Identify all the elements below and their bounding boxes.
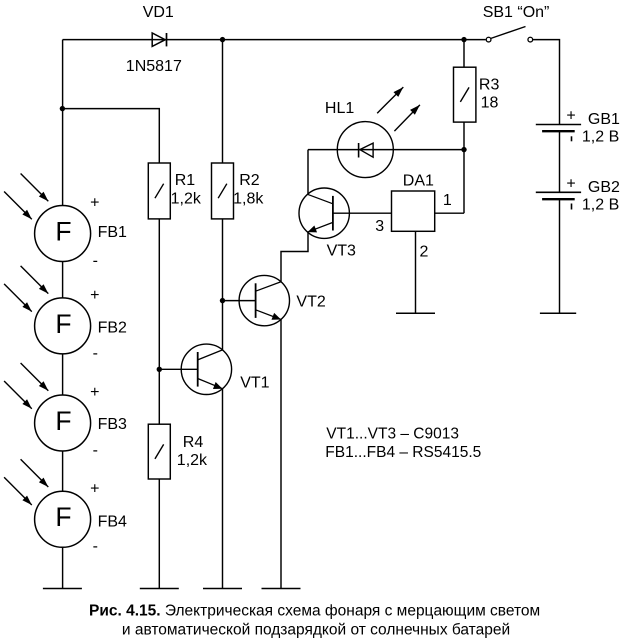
- svg-text:VT2: VT2: [296, 293, 325, 310]
- svg-text:+: +: [90, 384, 99, 401]
- svg-text:1,2 В: 1,2 В: [582, 129, 619, 146]
- svg-text:18: 18: [481, 95, 499, 112]
- svg-text:GB2: GB2: [588, 179, 620, 196]
- svg-text:HL1: HL1: [325, 100, 354, 117]
- svg-text:-: -: [93, 252, 98, 269]
- svg-text:3: 3: [375, 218, 384, 235]
- svg-text:-: -: [93, 538, 98, 555]
- svg-text:1,2 В: 1,2 В: [582, 197, 619, 214]
- svg-text:R2: R2: [239, 172, 260, 189]
- svg-text:1N5817: 1N5817: [126, 58, 182, 75]
- svg-text:1: 1: [443, 192, 452, 209]
- svg-text:FB3: FB3: [98, 416, 127, 433]
- svg-text:FB2: FB2: [98, 319, 127, 336]
- svg-text:F: F: [55, 502, 71, 532]
- svg-text:R1: R1: [175, 172, 196, 189]
- svg-text:FB4: FB4: [98, 513, 127, 530]
- svg-text:+: +: [90, 480, 99, 497]
- svg-text:F: F: [55, 216, 71, 246]
- svg-text:VT1: VT1: [240, 375, 269, 392]
- svg-text:1,2k: 1,2k: [177, 452, 208, 469]
- svg-text:+: +: [90, 195, 99, 212]
- svg-text:SB1 “On”: SB1 “On”: [483, 4, 550, 21]
- svg-text:+: +: [566, 108, 575, 125]
- svg-text:F: F: [55, 309, 71, 339]
- svg-text:Рис. 4.15. Электрическая схема: Рис. 4.15. Электрическая схема фонаря с …: [89, 603, 540, 620]
- svg-text:FB1...FB4 – RS5415.5: FB1...FB4 – RS5415.5: [325, 444, 481, 461]
- svg-text:2: 2: [420, 243, 429, 260]
- svg-text:FB1: FB1: [98, 224, 127, 241]
- svg-text:VD1: VD1: [143, 4, 174, 21]
- svg-text:-: -: [93, 345, 98, 362]
- svg-text:+: +: [566, 176, 575, 193]
- svg-text:1,2k: 1,2k: [171, 190, 202, 207]
- svg-text:VT3: VT3: [327, 242, 356, 259]
- svg-text:и автоматической подзарядкой о: и автоматической подзарядкой от солнечны…: [122, 622, 510, 639]
- svg-text:F: F: [55, 406, 71, 436]
- svg-text:+: +: [90, 287, 99, 304]
- svg-text:VT1...VT3 – C9013: VT1...VT3 – C9013: [326, 426, 459, 443]
- svg-text:R3: R3: [479, 77, 500, 94]
- svg-text:1,8k: 1,8k: [233, 190, 264, 207]
- svg-text:R4: R4: [183, 434, 204, 451]
- svg-text:GB1: GB1: [588, 111, 620, 128]
- svg-text:DA1: DA1: [403, 173, 434, 190]
- svg-text:-: -: [93, 442, 98, 459]
